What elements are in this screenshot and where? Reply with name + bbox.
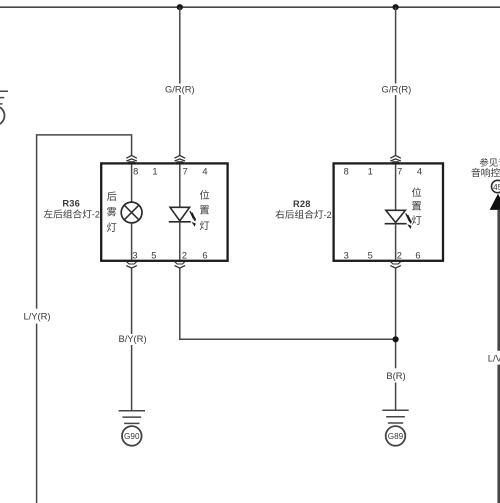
label 参见音 (see audio) [480,158,500,167]
node junction left G/R(R) tap [177,4,183,10]
svg-text:4: 4 [417,166,422,176]
LED position lamp in R36 [179,165,181,208]
wire L/Y(R) branch [37,135,132,309]
svg-text:R36: R36 [62,198,80,208]
ground G89 [382,409,408,411]
svg-text:-2: -2 [324,210,332,220]
node junction right G/R(R) tap [393,4,399,10]
svg-text:7: 7 [397,166,402,176]
svg-text:3: 3 [344,251,349,261]
svg-text:L/Y(R): L/Y(R) [23,311,50,322]
svg-text:G90: G90 [124,432,140,441]
connector pin 7 top of R28 [390,156,401,159]
svg-text:G/R(R): G/R(R) [382,83,412,94]
svg-text:1: 1 [152,166,157,176]
ground G90 [119,410,145,412]
svg-text:3: 3 [132,251,137,261]
svg-text:B(R): B(R) [386,370,405,381]
label 右后组合灯-2 [275,210,323,219]
svg-text:8: 8 [344,166,349,176]
svg-text:-2: -2 [92,210,100,220]
label 后雾灯 [107,191,117,231]
ground clipped at left edge [0,90,8,92]
svg-text:B/Y(R): B/Y(R) [118,333,146,344]
component box R36 left rear combination lamp [101,163,227,260]
connector pin 2 bottom of R36 [174,261,185,264]
connector pin 8 top of R36 [126,156,137,159]
svg-text:45: 45 [493,182,500,192]
svg-text:2: 2 [182,251,187,261]
svg-text:8: 8 [133,166,138,176]
svg-text:R28: R28 [293,199,311,209]
svg-text:4: 4 [202,166,207,176]
label 位置灯 right [412,187,421,224]
off-page arrow to audio system [490,194,500,210]
wire top supply bus [0,6,500,8]
wire B(R) to G89 [395,383,397,411]
label 位置灯 left [200,190,209,230]
wire G/R(R) to R28 pin 7 [395,7,397,83]
node junction B(R) [393,336,399,342]
svg-text:G89: G89 [388,432,404,441]
svg-text:6: 6 [415,251,420,261]
wire R28 pin 2 down [395,268,397,368]
svg-text:2: 2 [397,251,402,261]
wire L/V to off-page arrow [497,210,500,351]
component box R28 right rear combination lamp [334,163,443,260]
svg-text:7: 7 [183,166,188,176]
LED position lamp in R28 [395,165,397,211]
label 音响控制 [471,168,500,177]
label 左后组合灯-2 [44,209,92,218]
svg-text:L/V(R): L/V(R) [488,353,500,364]
svg-text:5: 5 [368,251,373,261]
svg-text:1: 1 [368,166,373,176]
svg-text:G/R(R): G/R(R) [165,83,195,94]
connector pin 2 bottom of R28 [390,261,401,264]
svg-text:5: 5 [151,251,156,261]
wire R36 pin 2 to junction [180,268,396,339]
lamp rear fog bulb in R36 [131,165,133,203]
wire G/R(R) to R36 pin 7 [179,7,181,83]
connector pin 7 top of R36 [175,156,186,159]
reference circle 45 [492,180,500,192]
svg-text:6: 6 [202,251,207,261]
connector pin 3 bottom of R36 [126,261,137,264]
wire B/Y(R) from R36 pin 3 to G90 [131,268,133,334]
